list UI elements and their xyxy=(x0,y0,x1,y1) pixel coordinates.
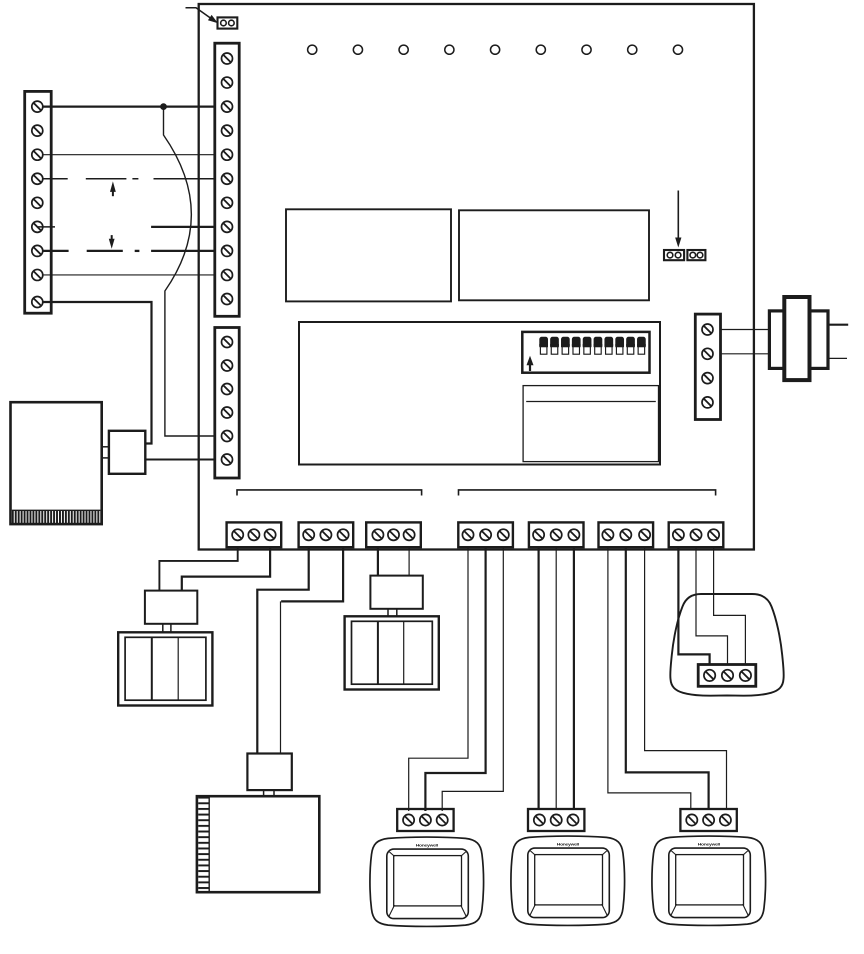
svg-text:Honeywell: Honeywell xyxy=(416,843,438,847)
svg-text:Honeywell: Honeywell xyxy=(557,842,579,846)
svg-text:Honeywell: Honeywell xyxy=(698,842,720,846)
